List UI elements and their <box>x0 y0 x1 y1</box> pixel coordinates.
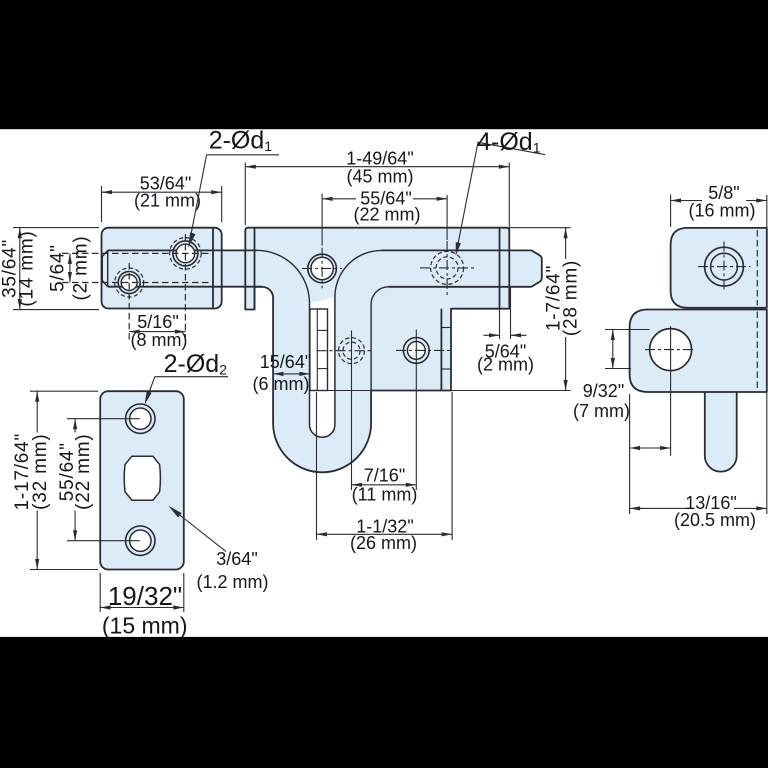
svg-text:15/64": 15/64" <box>260 352 311 372</box>
svg-text:5/16": 5/16" <box>137 312 178 332</box>
svg-text:9/32": 9/32" <box>583 381 624 401</box>
svg-text:2-Ød2: 2-Ød2 <box>164 350 228 378</box>
svg-text:(16 mm): (16 mm) <box>689 201 756 221</box>
svg-text:(32 mm): (32 mm) <box>30 434 51 510</box>
svg-text:(6 mm): (6 mm) <box>253 374 310 394</box>
svg-text:(26 mm): (26 mm) <box>350 533 417 553</box>
svg-text:(21 mm): (21 mm) <box>134 191 201 211</box>
svg-text:5/64": 5/64" <box>48 244 69 292</box>
svg-text:4-Ød1: 4-Ød1 <box>477 128 541 156</box>
svg-text:1-49/64": 1-49/64" <box>346 149 413 169</box>
svg-text:7/16": 7/16" <box>364 466 405 486</box>
svg-text:19/32": 19/32" <box>108 581 182 611</box>
svg-text:(8 mm): (8 mm) <box>131 330 188 350</box>
svg-text:(2 mm): (2 mm) <box>477 355 534 375</box>
svg-text:(14 mm): (14 mm) <box>17 230 38 306</box>
svg-text:(45 mm): (45 mm) <box>347 167 414 187</box>
svg-text:(1.2 mm): (1.2 mm) <box>197 572 269 592</box>
svg-text:(2 mm): (2 mm) <box>71 236 92 301</box>
svg-text:3/64": 3/64" <box>216 549 257 569</box>
svg-text:(22 mm): (22 mm) <box>354 205 421 225</box>
svg-text:(7 mm): (7 mm) <box>573 401 630 421</box>
svg-text:2-Ød1: 2-Ød1 <box>209 127 273 155</box>
svg-text:(20.5 mm): (20.5 mm) <box>674 510 756 530</box>
svg-text:(22 mm): (22 mm) <box>73 434 94 510</box>
svg-text:(11 mm): (11 mm) <box>352 485 418 505</box>
svg-text:(28 mm): (28 mm) <box>561 260 582 336</box>
svg-text:(15 mm): (15 mm) <box>102 613 188 639</box>
